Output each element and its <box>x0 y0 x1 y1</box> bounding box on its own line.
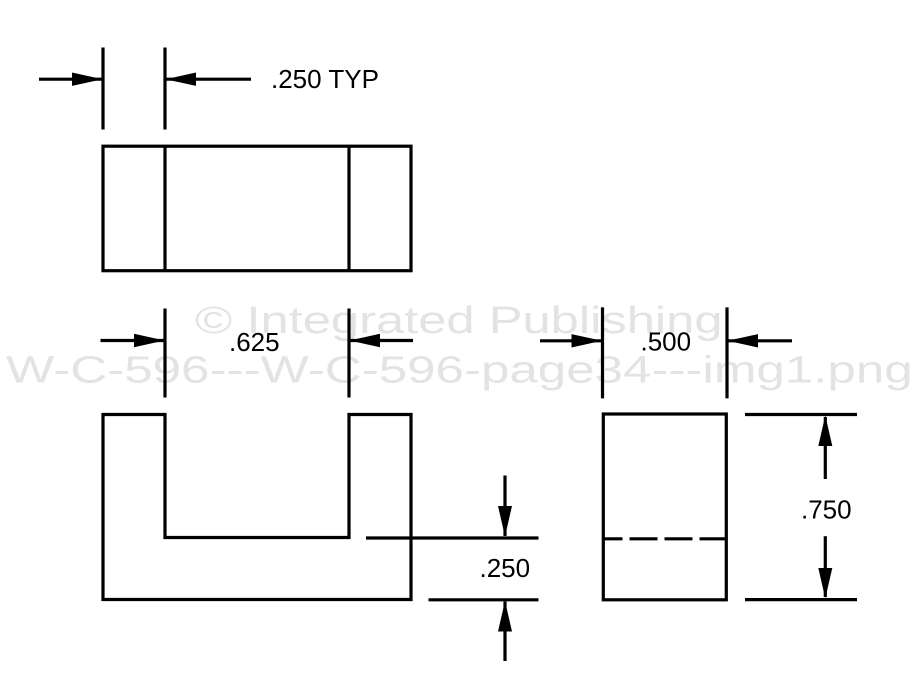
extension line left of .250 TYP <box>101 48 104 130</box>
arrowhead up of .250 <box>498 601 512 632</box>
top view outline rectangle <box>103 146 411 271</box>
arrowhead right of .250 TYP <box>166 73 197 86</box>
arrowhead up of .750 <box>818 416 832 447</box>
dimension arrow stem left of .250 TYP <box>39 78 102 81</box>
extension line right of .500 <box>725 307 728 398</box>
side view hidden dashed line <box>604 537 727 540</box>
down arrow stem of .250 <box>503 476 506 537</box>
svg-text:.250: .250 <box>480 553 531 583</box>
dimension arrow stem left of .625 <box>101 339 164 342</box>
dimension arrow stem right of .500 <box>729 339 793 342</box>
dimension arrow stem right of .250 TYP <box>167 78 252 81</box>
extension line right of .250 TYP <box>163 48 166 130</box>
svg-text:.750: .750 <box>801 495 852 525</box>
extension line top of .750 <box>745 413 857 416</box>
extension line upper of .250 (right of U) <box>366 536 539 539</box>
front view U-channel outline <box>103 415 411 600</box>
extension line bottom of .750 <box>745 598 857 601</box>
extension line left of .500 <box>601 307 604 398</box>
extension line left of .625 <box>163 309 166 398</box>
arrowhead left of .500 <box>572 334 603 347</box>
up arrow stem of .250 <box>503 602 506 662</box>
dimension arrow stem left of .500 <box>540 339 601 342</box>
arrowhead left of .625 <box>134 334 165 347</box>
arrowhead left of .250 TYP <box>72 73 103 86</box>
up arrow stem of .750 <box>824 417 827 479</box>
svg-text:W-C-596---W-C-596-page34---img: W-C-596---W-C-596-page34---img1.png <box>6 348 913 391</box>
extension line lower of .250 (right of U) <box>429 598 539 601</box>
arrowhead right of .625 <box>350 334 381 347</box>
top view inner line left <box>163 146 166 271</box>
down arrow stem of .750 <box>824 536 827 597</box>
svg-text:.625: .625 <box>229 327 280 357</box>
top view inner line right <box>347 146 350 271</box>
side view rectangle <box>603 414 726 600</box>
dimension arrow stem right of .625 <box>351 339 414 342</box>
arrowhead right of .500 <box>728 334 759 347</box>
arrowhead down of .250 <box>498 506 512 537</box>
svg-text:.500: .500 <box>641 327 692 357</box>
svg-text:.250 TYP: .250 TYP <box>271 64 379 94</box>
extension line right of .625 <box>347 309 350 398</box>
arrowhead down of .750 <box>818 568 832 599</box>
